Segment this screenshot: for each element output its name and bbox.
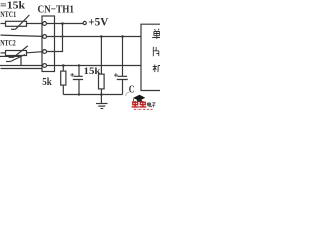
svg-text:+5V: +5V xyxy=(88,16,109,28)
svg-text:NTC2: NTC2 xyxy=(0,37,15,47)
MCU box (单片机) xyxy=(141,24,161,90)
label 5k xyxy=(42,76,52,88)
wire pin 1 to +5V terminal xyxy=(47,23,84,25)
node dot rail at capacitor C1 xyxy=(78,93,80,95)
wire NTC2 to pin 3 xyxy=(27,52,43,53)
svg-text:5k: 5k xyxy=(42,76,52,88)
label +5V xyxy=(88,16,109,28)
label 15k xyxy=(84,66,101,76)
svg-text:NTC1: NTC1 xyxy=(0,9,16,19)
resistor 5k xyxy=(61,66,66,95)
node dot on +5V row at x=62 xyxy=(61,22,64,25)
pin 1 xyxy=(43,22,47,26)
node dot row2 x=62 xyxy=(61,35,63,37)
label =15k xyxy=(0,0,26,12)
watermark text 虫虫 (red) xyxy=(132,101,147,107)
pin 2 xyxy=(43,35,47,39)
ground rail wire xyxy=(63,94,122,96)
MCU text 片 xyxy=(153,47,159,57)
label C xyxy=(129,85,135,96)
thermistor NTC2 xyxy=(1,46,28,57)
wire pin 2 row to MCU box xyxy=(47,36,142,38)
thermistor NTC1 label xyxy=(0,9,16,19)
wire pin 2 to left edge xyxy=(1,35,43,36)
wire stub at left into connector edge xyxy=(1,68,43,70)
wire NTC3 to pin 4 xyxy=(21,65,43,67)
node dot rail at ground xyxy=(100,93,103,96)
connector label CN-TH1 xyxy=(38,3,75,15)
+5V terminal circle xyxy=(83,21,86,24)
MCU text 机 xyxy=(153,65,161,73)
resistor 15k with feed wire from row2 xyxy=(99,37,105,95)
node dot row2 x=122 xyxy=(121,35,124,38)
ground symbol xyxy=(96,95,108,109)
node dot row4 at 5k xyxy=(62,64,65,67)
svg-text:CN−TH1: CN−TH1 xyxy=(38,3,75,15)
wire pin 4 row to MCU box xyxy=(47,65,142,67)
node dot row2 x=101 xyxy=(100,35,103,38)
thermistor NTC2 label xyxy=(0,37,15,47)
wire NTC1 to pin 1 xyxy=(27,23,43,25)
thermistor NTC1 xyxy=(1,15,30,29)
capacitor C (polarized, right) xyxy=(114,37,128,95)
connector CN-TH1 box xyxy=(42,16,55,72)
vertical jumper wire x=62 joining rows 1-3 xyxy=(62,24,64,52)
capacitor C1 (polarized, near 5k) xyxy=(70,66,83,95)
watermark copyright arc xyxy=(126,92,130,96)
pin 4 xyxy=(43,64,47,68)
MCU text 单 xyxy=(152,29,161,39)
watermark tiny red caption xyxy=(134,108,153,110)
svg-text:C: C xyxy=(129,85,135,96)
watermark text 电子 (dark) xyxy=(147,102,155,107)
node dot row4 at capacitor xyxy=(78,64,80,66)
thermistor NTC3 (partial, cut at left edge) xyxy=(0,55,25,66)
pin 3 xyxy=(43,50,47,54)
wire pin 3 to jumper xyxy=(47,51,64,53)
watermark graduation cap logo xyxy=(132,95,145,103)
